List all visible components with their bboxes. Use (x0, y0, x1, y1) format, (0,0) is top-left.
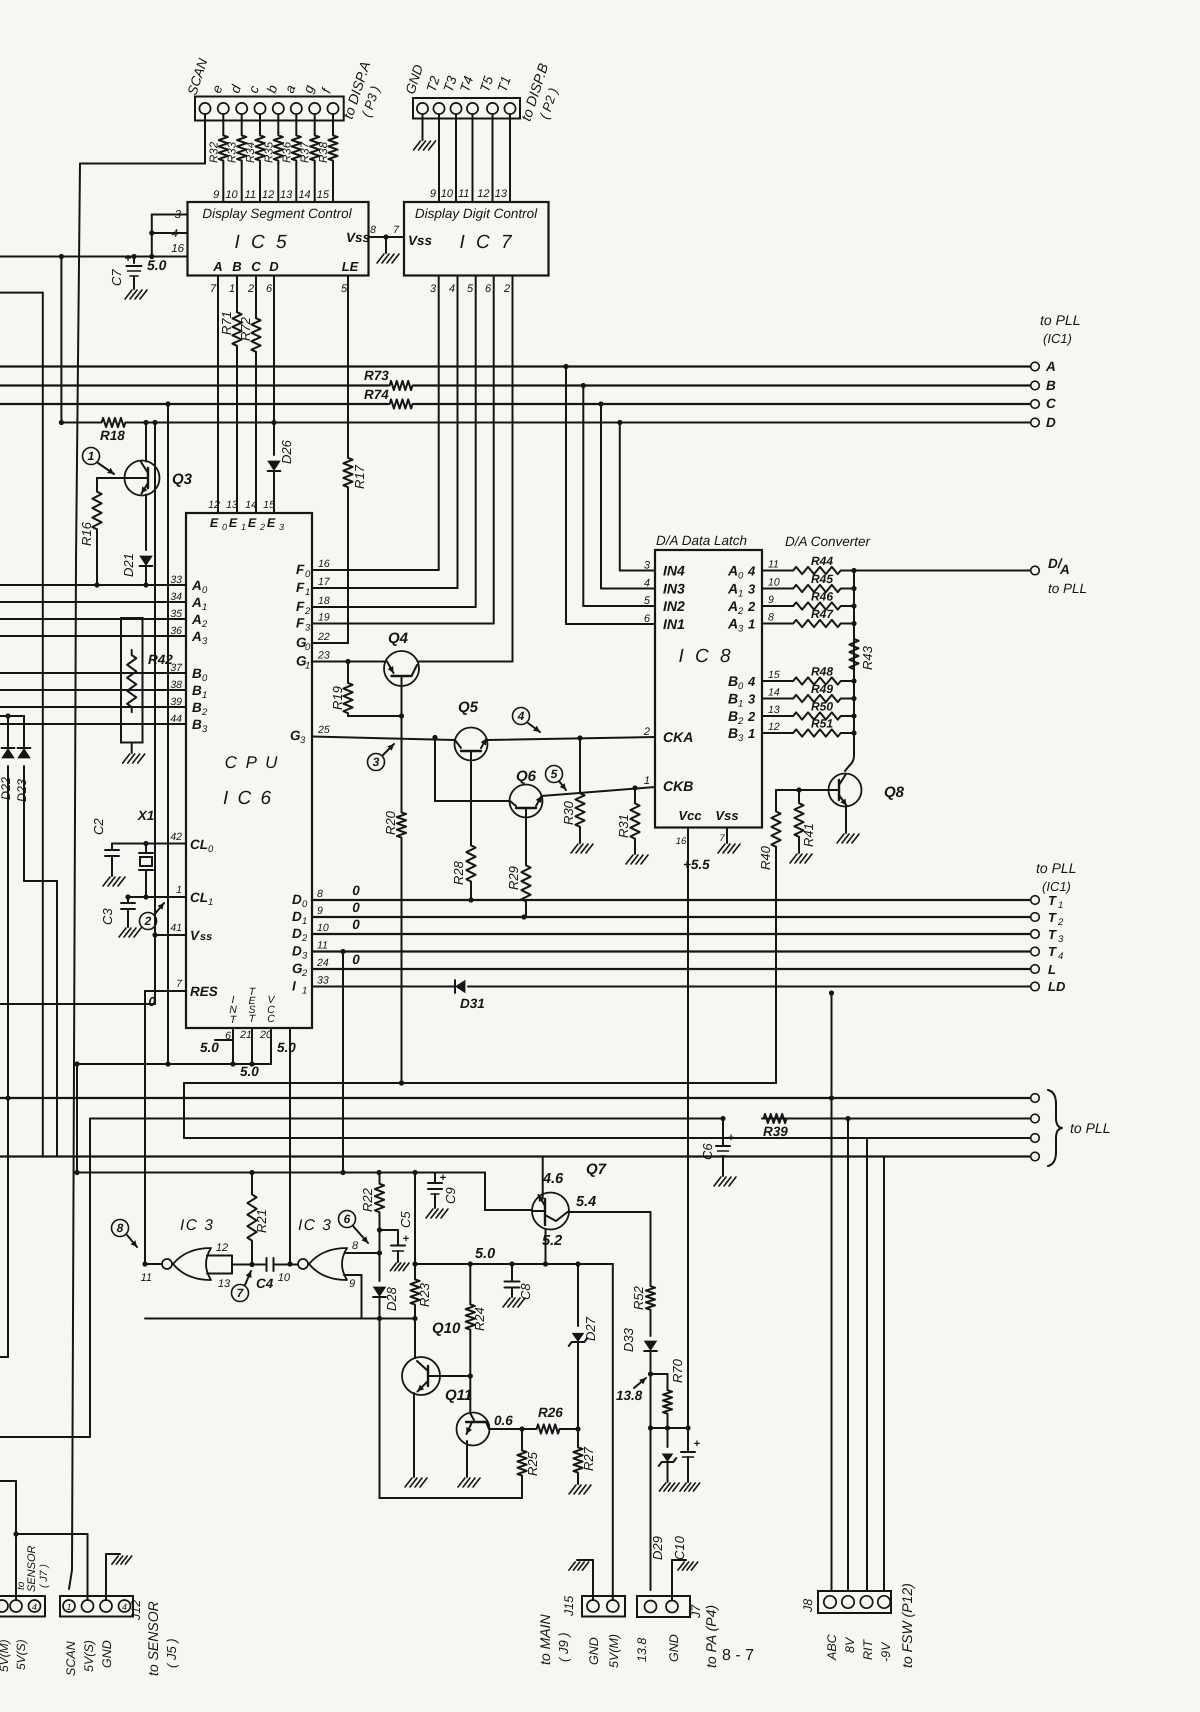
svg-text:SCAN: SCAN (185, 56, 211, 97)
svg-text:0: 0 (202, 585, 208, 596)
svg-text:GND: GND (667, 1634, 681, 1662)
svg-text:R47: R47 (811, 607, 834, 621)
svg-text:9: 9 (768, 594, 774, 606)
svg-text:C: C (267, 1013, 275, 1025)
caption to DISP.A (P3) (340, 59, 383, 121)
svg-text:3: 3 (300, 735, 306, 746)
IC6 Vss label (170, 922, 212, 943)
terminal A (1031, 359, 1056, 374)
transistor Q10 (402, 1320, 461, 1395)
svg-text:C3: C3 (100, 908, 115, 925)
svg-text:IN4: IN4 (663, 563, 685, 579)
svg-text:3: 3 (373, 755, 380, 769)
svg-text:2: 2 (1057, 917, 1064, 928)
wire Q10 emitter ground (405, 1393, 427, 1487)
label 0 G2 (352, 952, 360, 967)
wire Q6 branch (435, 738, 510, 802)
svg-text:11: 11 (245, 189, 256, 201)
label 0 D0 (352, 883, 360, 898)
IC7 bottom pin numbers (430, 283, 510, 295)
svg-text:R39: R39 (763, 1124, 788, 1139)
svg-text:SENSOR: SENSOR (26, 1545, 38, 1592)
svg-text:GND: GND (100, 1640, 114, 1668)
wire Q6 emitter R29 (525, 817, 527, 862)
svg-text:L: L (1048, 962, 1056, 977)
wire 5.0 row under IC6 (74, 1061, 271, 1066)
svg-text:5V(S): 5V(S) (14, 1639, 28, 1670)
wire column 168 (167, 404, 169, 1064)
IC6 title CPU (223, 753, 279, 809)
wire Q6 collector CKB row (542, 785, 656, 796)
IC8 name (678, 646, 733, 667)
wire J12 5VS column (87, 1534, 89, 1600)
svg-text:3: 3 (644, 560, 651, 572)
wire D23 to col57 (24, 881, 57, 1156)
svg-text:D26: D26 (279, 439, 294, 464)
diode D29 zener (650, 1428, 679, 1560)
wire Q8 emitter ground (837, 806, 859, 843)
IC7 name (459, 232, 514, 253)
svg-text:J7: J7 (689, 1604, 703, 1619)
svg-text:T2: T2 (424, 74, 443, 94)
terminal C (1031, 396, 1056, 411)
svg-text:8V: 8V (843, 1636, 857, 1653)
svg-text:12: 12 (477, 188, 489, 200)
wires bus rows into IC6 A0-B3 (0, 582, 186, 724)
svg-text:e: e (209, 83, 226, 95)
svg-text:5: 5 (467, 283, 474, 295)
svg-text:2: 2 (144, 914, 152, 928)
svg-text:0: 0 (222, 522, 227, 532)
svg-text:R24: R24 (472, 1307, 487, 1331)
svg-text:R25: R25 (525, 1451, 540, 1476)
transistor Q7 (532, 1161, 607, 1230)
wire bus B (0, 383, 1031, 388)
IC5 title (202, 206, 352, 221)
svg-text:R45: R45 (811, 572, 833, 586)
svg-text:T1: T1 (495, 74, 514, 94)
svg-text:A: A (727, 563, 738, 579)
J12 labels (64, 1600, 143, 1676)
capacitor C7 (109, 251, 147, 299)
svg-text:IN2: IN2 (663, 598, 685, 614)
P2 pin labels (403, 63, 514, 96)
IC8 left pin labels (643, 560, 693, 795)
svg-text:Display Segment Control: Display Segment Control (202, 206, 352, 221)
IC8 Vcc Vss labels (676, 808, 739, 847)
resistor R39 (762, 1114, 788, 1139)
wire R23 to Q10 collector (414, 1319, 416, 1359)
connector J7pa (637, 1596, 690, 1617)
svg-text:LE: LE (342, 259, 359, 274)
capacitor C5 (380, 1211, 414, 1271)
resistor R49 (762, 682, 857, 702)
svg-text:A: A (1059, 562, 1070, 577)
resistor R44 (762, 554, 857, 574)
brace to PLL (1048, 1090, 1110, 1166)
svg-text:T: T (1048, 944, 1057, 959)
svg-text:1: 1 (644, 775, 650, 787)
wire Q3 emitter to D21 (145, 495, 147, 551)
svg-text:B: B (192, 717, 202, 732)
IC6 bottom labels INT TEST VCC (229, 986, 275, 1026)
wire Q7 emitter (543, 1229, 548, 1267)
resistor R19 (330, 662, 353, 717)
svg-text:Vss: Vss (408, 233, 433, 248)
svg-text:R71: R71 (219, 311, 234, 335)
svg-text:CL: CL (190, 837, 208, 852)
IC8 D/A Data Latch box (655, 550, 762, 828)
svg-text:23: 23 (317, 650, 330, 662)
wire PLL row2 (90, 1116, 1031, 1121)
svg-text:D29: D29 (650, 1536, 665, 1560)
IC6 right pin labels D0-I1 (292, 888, 329, 997)
capacitor C9 (426, 1172, 458, 1218)
transistor Q3 (125, 461, 193, 496)
terminal PLL3 (1031, 1134, 1040, 1143)
resistor R33 (227, 114, 247, 202)
svg-text:R32: R32 (208, 141, 220, 163)
wire R-ladder column (845, 571, 854, 772)
svg-text:10: 10 (768, 577, 780, 589)
svg-text:R49: R49 (811, 682, 833, 696)
svg-text:11: 11 (141, 1272, 152, 1284)
wire Q7 right lead 5.4 (568, 1212, 651, 1284)
connector J15 (582, 1596, 625, 1617)
svg-text:0: 0 (738, 681, 744, 692)
annotation circled 6 (339, 1211, 369, 1244)
resistor R37 (300, 114, 320, 202)
wire Q4 emitter column (399, 686, 404, 1086)
wire IC7 pin2 to Q4 collector (419, 276, 513, 662)
resistor R73 (364, 368, 414, 390)
svg-text:12: 12 (262, 189, 274, 201)
svg-text:0: 0 (352, 917, 360, 932)
svg-text:to MAIN: to MAIN (537, 1614, 553, 1665)
svg-text:7: 7 (176, 978, 183, 990)
svg-text:Display Digit Control: Display Digit Control (415, 206, 538, 221)
svg-text:3: 3 (738, 733, 744, 744)
svg-text:B: B (728, 725, 738, 741)
svg-text:3: 3 (1058, 934, 1064, 945)
J8 labels (801, 1599, 893, 1662)
svg-text:A: A (727, 616, 738, 632)
label +5.5 (683, 857, 710, 872)
wire IC8 Vcc +5.5 column (685, 828, 690, 1431)
J7 sensor labels (0, 1639, 28, 1672)
wire row 1534 (16, 1533, 88, 1535)
svg-text:T4: T4 (457, 74, 476, 94)
wire CL1 row (125, 894, 186, 899)
svg-text:T: T (1048, 910, 1057, 925)
svg-text:Q6: Q6 (516, 768, 537, 785)
svg-text:0.6: 0.6 (494, 1413, 513, 1428)
svg-text:4.6: 4.6 (542, 1171, 564, 1187)
svg-text:1: 1 (202, 690, 207, 701)
wire gate2 pin9 feedback (344, 1275, 362, 1319)
label to PLL (IC1) top (1040, 312, 1080, 346)
terminal DA (1031, 556, 1087, 596)
svg-text:13: 13 (768, 704, 780, 716)
svg-text:+: + (124, 251, 131, 265)
svg-text:R28: R28 (451, 860, 466, 885)
svg-text:4: 4 (747, 674, 756, 689)
resistor R70 (651, 1358, 686, 1430)
wire D22 D23 top row (0, 713, 24, 718)
resistor R18 (100, 418, 127, 443)
svg-text:4: 4 (1058, 951, 1063, 962)
resistor R25 (517, 1429, 540, 1498)
svg-text:D28: D28 (384, 1286, 399, 1311)
diode D21 (121, 553, 153, 585)
wire left corner net (0, 293, 43, 1157)
svg-text:F: F (296, 599, 305, 614)
svg-text:GND: GND (587, 1637, 601, 1665)
svg-text:25: 25 (317, 724, 330, 736)
terminal B (1031, 378, 1056, 393)
wire J7 sensor pin2 up (13, 1531, 18, 1600)
svg-text:( J7 ): ( J7 ) (38, 1564, 50, 1588)
resistor R22 (360, 1173, 384, 1254)
terminal D (1031, 415, 1056, 430)
svg-text:I: I (292, 979, 296, 994)
IC6 left pin labels A0-B3 (170, 574, 208, 735)
transistor Q6 (510, 768, 543, 818)
resistor R24 (466, 1264, 487, 1376)
svg-text:1: 1 (738, 699, 743, 710)
transistor Q11 (445, 1387, 522, 1446)
wire E3 column upper (273, 276, 275, 423)
annotation circled 3 (368, 744, 395, 771)
svg-text:0: 0 (738, 571, 744, 582)
svg-text:R30: R30 (561, 800, 576, 825)
wire DA line (854, 570, 1031, 572)
caption D/A Converter (785, 534, 871, 549)
svg-text:2: 2 (259, 522, 265, 532)
svg-text:5V(M): 5V(M) (607, 1634, 621, 1668)
svg-text:C2: C2 (91, 818, 106, 835)
wire Q10 base row (440, 1373, 473, 1378)
svg-text:R22: R22 (360, 1187, 375, 1212)
label IC3 second (298, 1217, 332, 1234)
svg-text:R16: R16 (79, 521, 94, 546)
svg-text:(IC1): (IC1) (1042, 879, 1071, 894)
svg-text:RES: RES (190, 984, 218, 999)
diode D28 (373, 1253, 399, 1319)
svg-text:C P U: C P U (225, 753, 280, 772)
wire Q7 collector to row4 (542, 1157, 544, 1194)
wire G1 row to Q4 base (312, 659, 385, 664)
IC5 name (234, 232, 289, 253)
svg-text:to PLL: to PLL (1070, 1120, 1110, 1136)
IC6 CL1 label (176, 884, 213, 908)
svg-text:I C 6: I C 6 (223, 788, 273, 809)
wire row 1428 (648, 1425, 688, 1430)
svg-text:d: d (227, 83, 244, 95)
svg-text:14: 14 (245, 499, 257, 511)
svg-text:R73: R73 (364, 368, 389, 383)
svg-text:A: A (191, 595, 202, 610)
svg-text:9: 9 (213, 189, 219, 201)
J15 labels (562, 1596, 621, 1668)
caption to SENSOR (J7) (16, 1545, 50, 1592)
caption to DISP.B (P2) (518, 61, 561, 123)
wire IC5 pins 3 4 16 to 5.0 net (149, 215, 187, 257)
svg-text:5.0: 5.0 (147, 257, 167, 273)
wire rail 1498 (380, 1497, 523, 1499)
svg-text:19: 19 (318, 612, 330, 624)
crystal X1 (137, 808, 155, 897)
wire row2 left column (0, 1119, 90, 1438)
svg-text:R29: R29 (506, 866, 521, 890)
svg-text:A: A (727, 598, 738, 614)
svg-text:5: 5 (341, 283, 348, 295)
wire J7pa GND hook (672, 1560, 698, 1600)
svg-text:E: E (229, 516, 238, 530)
label 5.2 (542, 1233, 562, 1249)
svg-text:3: 3 (748, 582, 756, 597)
IC7 Vss label (408, 233, 433, 248)
svg-text:CKA: CKA (663, 729, 693, 745)
resistor R43 (849, 636, 875, 672)
wire bus B to IN2 (583, 386, 655, 607)
svg-text:B: B (728, 673, 738, 689)
annotation circled 8 (112, 1220, 138, 1248)
svg-text:8 - 7: 8 - 7 (722, 1647, 754, 1664)
svg-text:R21: R21 (254, 1209, 269, 1233)
svg-text:g: g (300, 83, 317, 95)
svg-text:C4: C4 (256, 1276, 274, 1291)
wire bus A to IN1 (566, 367, 655, 625)
transistor Q5 (455, 699, 488, 761)
wire 5.0 rail column from 1172 (414, 1173, 416, 1265)
svg-text:14: 14 (768, 687, 780, 699)
resistor R47 (762, 607, 857, 627)
svg-text:1: 1 (302, 916, 307, 927)
wire J7 stub 1481 (0, 1481, 16, 1534)
wire Q5 emitter R28 (470, 760, 472, 842)
svg-text:I C 5: I C 5 (234, 232, 289, 253)
svg-text:R50: R50 (811, 700, 833, 714)
wire Q5 collector CKA row (487, 735, 655, 740)
svg-text:F: F (296, 562, 305, 577)
wire L row G2 (312, 968, 1031, 970)
svg-text:+: + (403, 1233, 409, 1245)
wire J15 GND hook (569, 1560, 593, 1600)
svg-text:C: C (251, 259, 261, 274)
svg-text:B: B (192, 700, 202, 715)
wire Q7 base rail 1172 (74, 1170, 485, 1210)
svg-text:T: T (1048, 893, 1057, 908)
terminal T2 (1031, 910, 1064, 928)
svg-text:1: 1 (748, 726, 755, 741)
transistor Q4 (384, 630, 419, 686)
svg-text:f: f (319, 86, 335, 95)
svg-text:1: 1 (738, 589, 743, 600)
resistor R48 (762, 665, 857, 685)
svg-text:D: D (1046, 415, 1056, 430)
svg-text:D33: D33 (621, 1327, 636, 1352)
IC5 bottom pin numbers (210, 283, 348, 295)
wire LD row I1 (312, 987, 1031, 996)
svg-text:IN3: IN3 (663, 581, 685, 597)
resistor R26 (535, 1405, 581, 1434)
svg-text:9: 9 (349, 1278, 355, 1290)
svg-text:10: 10 (317, 922, 329, 934)
svg-text:D23: D23 (15, 779, 29, 802)
svg-text:D21: D21 (121, 553, 136, 577)
resistor R36 (281, 114, 301, 202)
IC7 Display Digit Control box (404, 202, 549, 276)
wire INT pin down (230, 1028, 235, 1067)
svg-text:to PLL: to PLL (1036, 860, 1076, 876)
svg-text:8: 8 (117, 1221, 124, 1235)
wire RIT column (866, 1138, 868, 1590)
svg-text:4: 4 (32, 1602, 37, 1612)
resistor R71 (219, 276, 242, 514)
svg-text:12: 12 (768, 721, 780, 733)
annotation circled 7 (232, 1271, 252, 1302)
svg-text:16: 16 (676, 836, 687, 847)
svg-text:B: B (728, 708, 738, 724)
svg-text:13.8: 13.8 (635, 1638, 649, 1662)
terminal PLL2 (1031, 1114, 1040, 1123)
svg-text:10: 10 (278, 1272, 291, 1284)
svg-text:+5.5: +5.5 (683, 857, 710, 872)
svg-text:6: 6 (644, 613, 651, 625)
wire bus C (0, 401, 1031, 406)
capacitor C10 (672, 1428, 700, 1560)
svg-text:Vss: Vss (715, 808, 738, 823)
svg-text:J12: J12 (129, 1600, 143, 1621)
resistor R50 (762, 700, 857, 720)
svg-text:16: 16 (171, 243, 184, 255)
wire TEST pin down (249, 1028, 254, 1067)
svg-text:R31: R31 (616, 814, 631, 838)
diode D33 (621, 1312, 657, 1377)
wire gate2 out column (287, 1028, 292, 1267)
svg-text:8: 8 (370, 224, 376, 236)
svg-text:b: b (264, 83, 281, 95)
svg-text:R26: R26 (538, 1405, 563, 1420)
svg-text:10: 10 (441, 188, 454, 200)
connector P3 to DISP.A (195, 97, 344, 121)
svg-text:17: 17 (318, 576, 331, 588)
caption to MAIN (J9) (537, 1614, 571, 1665)
connector J12 (60, 1596, 133, 1617)
svg-text:2: 2 (747, 709, 756, 724)
wire VCC pin down (270, 1028, 272, 1064)
label 0 D2 (352, 917, 360, 932)
resistor R27 (569, 1429, 596, 1494)
IC5 bottom labels A B C D LE (212, 259, 358, 274)
svg-text:+: + (694, 1438, 700, 1450)
P3 pin labels (185, 56, 335, 97)
svg-text:C8: C8 (518, 1283, 533, 1300)
svg-text:E: E (210, 516, 219, 530)
svg-text:C9: C9 (443, 1187, 458, 1204)
IC5 Display Segment Control box (188, 202, 369, 276)
label 4.6 (542, 1171, 564, 1187)
resistor R32 (208, 114, 228, 202)
svg-text:8: 8 (352, 1240, 359, 1252)
resistor R34 (245, 114, 265, 202)
IC5 LE wire (347, 276, 349, 286)
svg-text:R38: R38 (318, 141, 330, 163)
svg-text:18: 18 (318, 595, 330, 607)
diode D22 (0, 716, 15, 1357)
svg-text:R46: R46 (811, 590, 833, 604)
